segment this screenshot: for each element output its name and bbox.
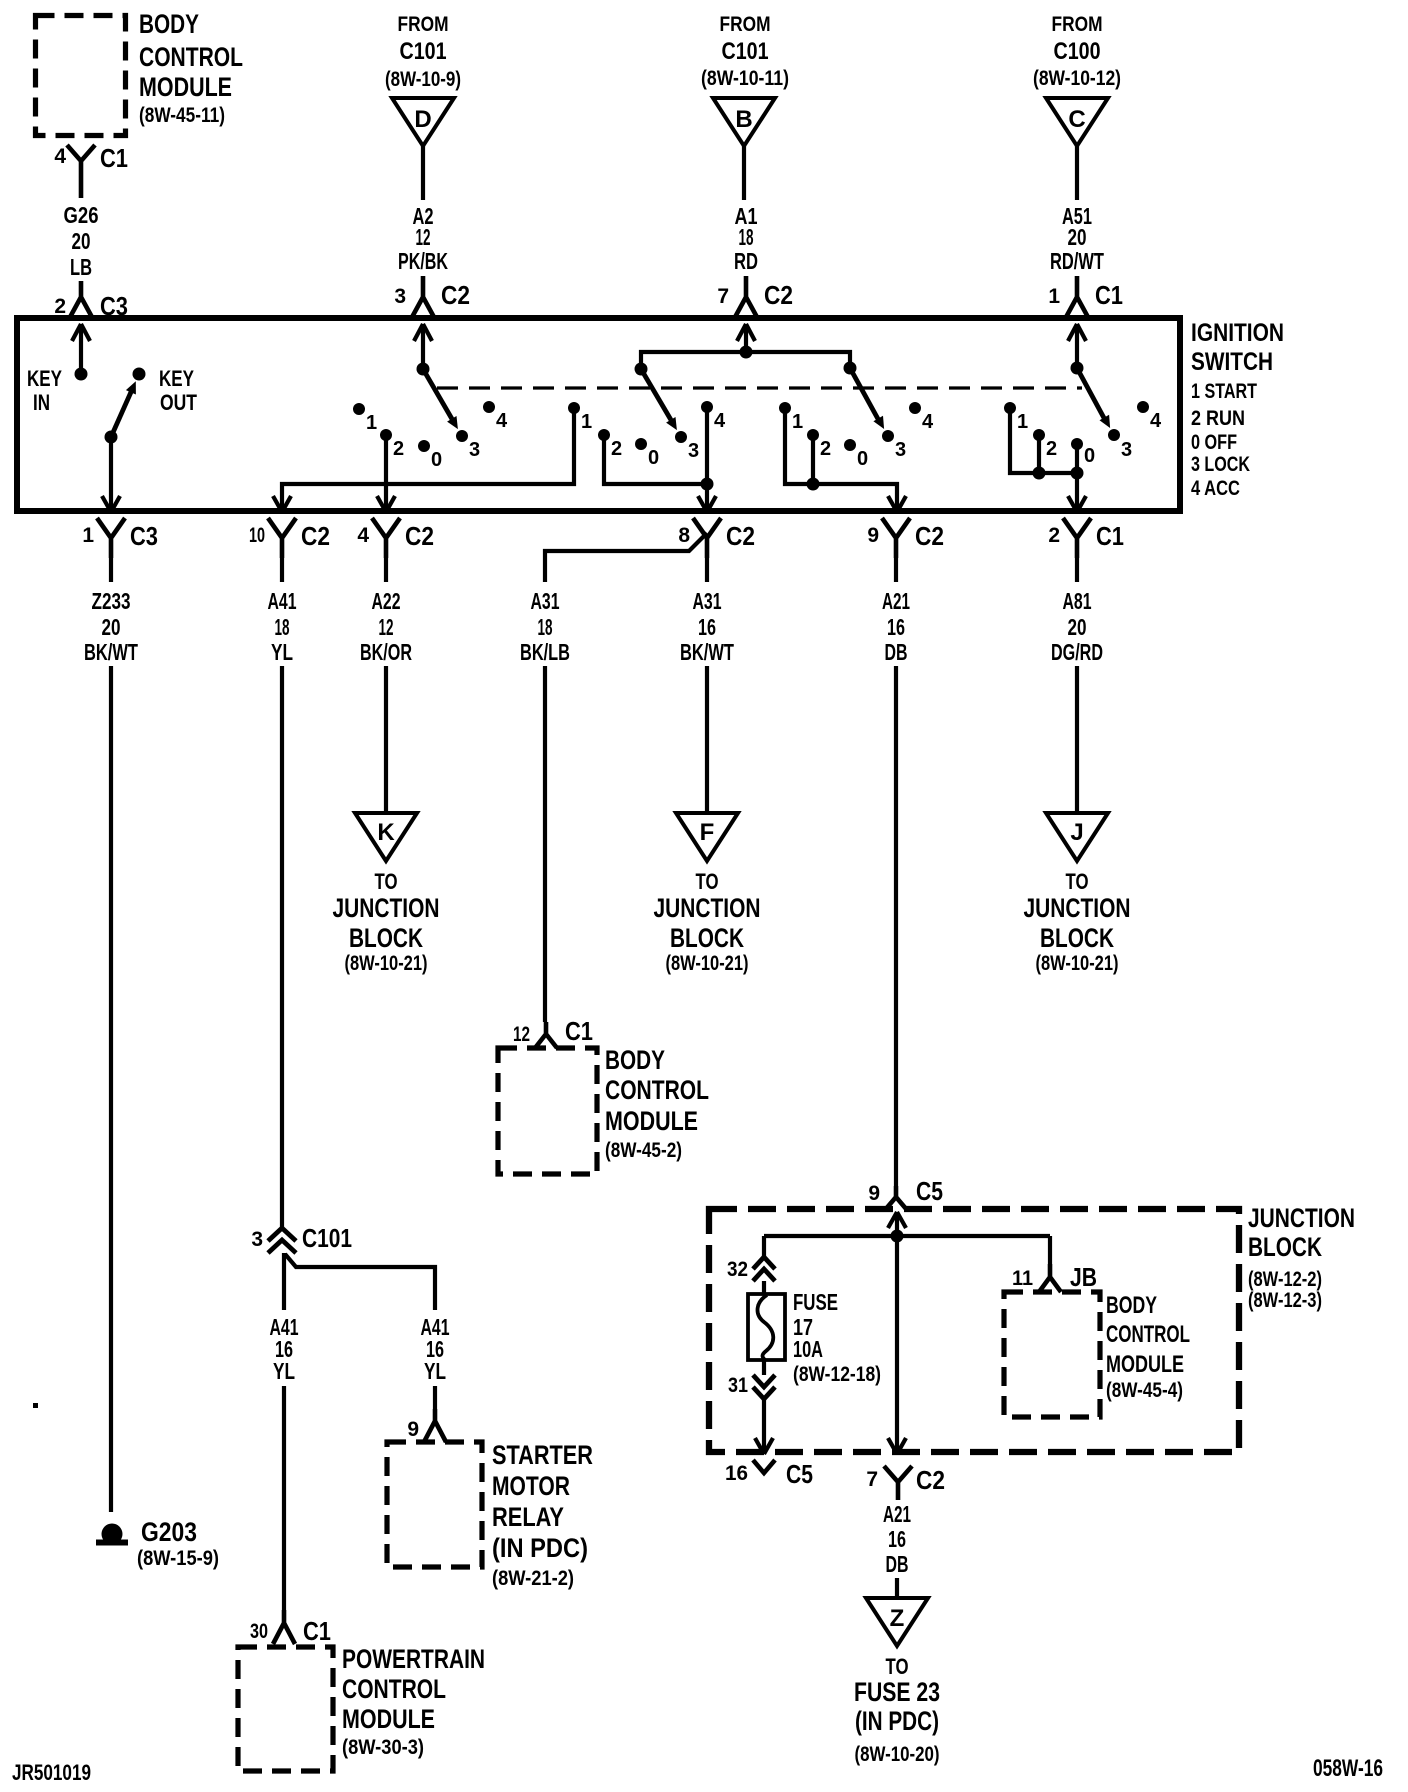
svg-text:FROM: FROM [1052,13,1103,36]
svg-text:058W-16: 058W-16 [1313,1755,1383,1782]
svg-text:(8W-30-3): (8W-30-3) [342,1736,424,1759]
wire G26 20 LB label [64,202,99,280]
wire bus to pin 7 C2 [895,1236,899,1454]
svg-text:JUNCTION: JUNCTION [1248,1203,1355,1233]
svg-text:4: 4 [714,410,726,432]
arrow out of box at pin 8 C2 [698,496,716,512]
svg-text:0 OFF: 0 OFF [1191,431,1237,454]
arrow into box at pin 7 C2 [737,324,755,341]
wire A31 18 to BCM [543,666,547,1022]
svg-text:20: 20 [102,614,121,640]
svg-text:RD: RD [734,248,758,274]
S4 contact 0 [1071,438,1095,467]
svg-text:(8W-10-21): (8W-10-21) [666,952,749,975]
svg-text:1 START: 1 START [1191,380,1257,403]
connector C1 pin 30 [250,1610,331,1646]
svg-text:12: 12 [416,224,431,250]
svg-text:BK/OR: BK/OR [360,639,412,665]
KEY OUT contact dot [133,368,146,381]
wire A81 [1075,558,1079,582]
svg-text:YL: YL [271,639,293,665]
svg-text:2: 2 [393,438,404,460]
svg-text:OUT: OUT [160,390,197,415]
svg-text:Z: Z [890,1605,905,1632]
svg-text:JUNCTION: JUNCTION [654,893,761,923]
S2 contact 2 [598,429,622,460]
junction dot S4 a [1033,467,1046,480]
svg-text:KEY: KEY [27,366,62,391]
svg-text:MOTOR: MOTOR [492,1471,570,1501]
S4 contact 3 [1108,429,1132,461]
S2 contact 1 [568,402,592,433]
svg-text:FROM: FROM [398,13,449,36]
svg-text:BK/WT: BK/WT [84,639,138,665]
svg-text:BK/WT: BK/WT [680,639,734,665]
bus wire to S2 and S3 pivots [641,352,850,369]
svg-text:11: 11 [1012,1267,1033,1290]
svg-text:J: J [1070,819,1083,846]
connector C2 pin 7 lower [866,1465,945,1500]
svg-text:C1: C1 [100,143,128,173]
to junction block label F [654,869,761,975]
svg-text:1: 1 [1017,411,1028,433]
svg-text:IGNITION: IGNITION [1191,319,1284,347]
svg-text:MODULE: MODULE [605,1106,698,1136]
svg-text:D: D [414,106,431,133]
junction block bus dot [891,1230,904,1243]
junction dot S4 b [1071,467,1084,480]
wire A31 18 BK/LB label [520,588,570,665]
svg-text:STARTER: STARTER [492,1440,593,1470]
svg-text:C2: C2 [764,280,793,310]
off-page connector Z [866,1598,928,1646]
wire A22 [384,558,388,582]
svg-text:4: 4 [1150,410,1162,432]
arrow out of box at pin 1 C3 [102,496,120,512]
KEY OUT label [159,366,197,415]
svg-text:20: 20 [72,228,91,254]
svg-text:2: 2 [1046,438,1057,460]
arrow into junction block [888,1212,906,1228]
svg-text:10A: 10A [793,1336,823,1362]
S1 contact 2 [380,429,404,460]
S2 contact 3 [675,431,699,462]
S4 contact 4 [1137,401,1162,432]
FROM C101 (8W-10-9) label [385,13,461,91]
svg-text:TO: TO [886,1654,909,1679]
svg-text:32: 32 [727,1258,748,1281]
svg-text:(8W-10-12): (8W-10-12) [1033,67,1121,90]
wire S4 contact 2 down [1037,440,1041,473]
body control module (8W-45-11) label [139,9,243,127]
junction block bus wire [764,1236,1050,1257]
svg-text:RELAY: RELAY [492,1502,564,1532]
svg-text:4: 4 [922,411,934,433]
switch S1 pivot dot [417,363,430,376]
wire A41 [280,558,284,582]
svg-text:2: 2 [820,438,831,460]
svg-text:(8W-15-9): (8W-15-9) [137,1547,219,1570]
to junction block label K [333,869,440,975]
svg-text:DB: DB [885,639,908,665]
arrow out of box at pin 9 C2 [888,496,906,512]
svg-text:BODY: BODY [1106,1292,1157,1319]
svg-text:4: 4 [496,410,508,432]
svg-text:YL: YL [424,1358,446,1384]
wire Z233 [109,558,113,582]
svg-text:2 RUN: 2 RUN [1191,407,1245,430]
svg-text:(8W-45-11): (8W-45-11) [139,104,225,127]
FROM C100 (8W-10-12) label [1033,13,1121,90]
connector C1 pin 12 [513,1016,593,1048]
ground G203 symbol [96,1524,128,1545]
svg-text:BLOCK: BLOCK [349,923,423,953]
connector C5 pin 9 [868,1176,943,1210]
svg-text:(8W-12-18): (8W-12-18) [793,1363,881,1386]
svg-text:4 ACC: 4 ACC [1191,477,1240,500]
svg-text:YL: YL [273,1358,295,1384]
svg-text:MODULE: MODULE [1106,1351,1184,1378]
svg-text:16: 16 [887,614,905,640]
svg-text:C101: C101 [400,38,447,65]
wire S4 contact 0 to pin 2 C1 [1075,449,1079,512]
wire A21 to Z [895,1578,899,1598]
connector C2 pin 8 [678,518,755,558]
svg-text:C2: C2 [301,521,330,551]
svg-text:TO: TO [696,869,719,894]
connector C5 pin 16 [725,1459,813,1489]
svg-text:0: 0 [431,449,442,471]
svg-text:RD/WT: RD/WT [1050,248,1104,274]
svg-text:TO: TO [375,869,398,894]
connector C3 pin 1 [82,518,158,558]
switch S2 pivot dot [635,363,648,376]
wire pin7 C2 to bus [744,324,748,352]
svg-text:9: 9 [407,1418,419,1441]
svg-text:16: 16 [725,1462,748,1485]
svg-text:18: 18 [538,614,553,640]
wire A31 16 BK/WT label [680,588,734,665]
wire 32 to fuse [762,1281,766,1294]
svg-text:C1: C1 [565,1016,593,1046]
ignition switch box [17,318,1180,511]
S4 contact 2 [1033,429,1057,460]
svg-text:C101: C101 [302,1223,352,1253]
svg-text:(8W-12-2): (8W-12-2) [1248,1268,1322,1291]
wire A41 18 YL label [268,588,297,665]
arrow out of box at pin 2 C1 [1068,496,1086,512]
svg-text:LB: LB [70,254,92,280]
svg-text:(8W-12-3): (8W-12-3) [1248,1289,1322,1312]
body control module (8W-45-2) label [605,1045,709,1162]
svg-text:BLOCK: BLOCK [1248,1232,1322,1262]
KEY IN label [27,366,62,415]
wire S2 contact 1 to pin 10 C2 [282,408,574,512]
S3 contact 2 [807,429,831,460]
svg-text:IN: IN [33,390,50,415]
svg-text:A41: A41 [268,588,297,614]
bus junction dot [740,346,753,359]
wire A41 left to PCM [282,1386,286,1610]
wire S3 contact 1 to pin 9 C2 [785,413,897,512]
body control module (8W-45-4) label [1106,1292,1190,1402]
svg-text:JUNCTION: JUNCTION [1024,893,1131,923]
wire pin1 C1 to switch S4 pivot [1075,324,1079,368]
svg-text:(8W-10-20): (8W-10-20) [855,1743,940,1766]
arrow out of box at pin 10 C2 [273,496,291,512]
svg-text:(8W-21-2): (8W-21-2) [492,1567,574,1590]
svg-text:3 LOCK: 3 LOCK [1191,453,1250,476]
wire A41 16 YL left segment [282,1253,286,1310]
body control module (8W-45-2) box [498,1048,597,1174]
svg-text:MODULE: MODULE [139,72,232,102]
wire S4 contact 1 to contact 0 line [1010,413,1077,473]
svg-text:CONTROL: CONTROL [342,1674,446,1704]
svg-text:K: K [377,819,395,846]
svg-text:MODULE: MODULE [342,1704,435,1734]
powertrain control module box [238,1647,333,1771]
svg-text:(IN PDC): (IN PDC) [855,1706,939,1736]
svg-text:C101: C101 [722,38,769,65]
wire A41 to C101 [280,666,284,1228]
wire A81 20 DG/RD label [1051,588,1103,665]
KEY IN contact dot [75,368,88,381]
switch S3 pivot dot [844,362,857,375]
svg-text:PK/BK: PK/BK [398,248,448,274]
wire A31 16 to F [705,666,709,813]
svg-text:BK/LB: BK/LB [520,639,570,665]
svg-text:3: 3 [469,439,480,461]
switch S3 arm [850,368,884,429]
svg-text:12: 12 [513,1023,530,1046]
switch S1 arm [423,369,458,429]
connector C2 pin 3 [394,276,470,319]
wire Z233 to ground [109,666,113,1512]
svg-text:JUNCTION: JUNCTION [333,893,440,923]
switch positions dashed line [437,386,1082,389]
svg-text:16: 16 [888,1526,906,1552]
fuse 17 10A label [793,1289,881,1386]
svg-text:C5: C5 [786,1459,813,1489]
wire pin2 C3 to KEY IN contact [79,324,83,374]
svg-text:A21: A21 [882,588,910,614]
off-page connector K [355,813,417,861]
svg-text:0: 0 [857,448,868,470]
svg-text:(8W-45-2): (8W-45-2) [605,1139,682,1162]
connector C2 pin 4 [357,518,434,558]
svg-text:8: 8 [678,524,690,547]
svg-text:C: C [1068,106,1085,133]
fuse 17 [748,1294,785,1360]
wire bus to JB connector [1048,1236,1052,1264]
svg-text:20: 20 [1068,614,1087,640]
svg-text:4: 4 [357,524,369,547]
svg-text:(8W-10-9): (8W-10-9) [385,68,461,91]
S4 contact 1 [1004,402,1028,433]
svg-text:1: 1 [792,411,803,433]
svg-text:BODY: BODY [605,1045,665,1075]
svg-text:(IN PDC): (IN PDC) [492,1533,588,1563]
wire from B [742,146,746,200]
svg-text:CONTROL: CONTROL [1106,1321,1190,1348]
switch S4 pivot dot [1071,362,1084,375]
svg-text:3: 3 [251,1228,263,1251]
svg-text:CONTROL: CONTROL [605,1075,709,1105]
svg-text:A81: A81 [1063,588,1092,614]
wire into junction block [895,1212,899,1236]
svg-text:A31: A31 [693,588,722,614]
svg-text:FROM: FROM [720,13,771,36]
arrow into box at pin 3 C2 [414,324,432,341]
switch S4 arm [1077,368,1110,428]
svg-text:G26: G26 [64,202,99,228]
svg-text:2: 2 [54,295,66,318]
wire fuse to 31 [762,1360,766,1375]
S3 contact 3 [882,430,906,461]
svg-text:7: 7 [717,285,729,308]
svg-text:18: 18 [739,224,754,250]
svg-text:C3: C3 [130,521,158,551]
ground G203 label [137,1517,219,1570]
powertrain control module label [342,1644,485,1759]
wire pin3 C2 to switch S1 pivot [421,324,425,369]
junction block box [709,1209,1239,1452]
svg-text:9: 9 [867,524,879,547]
svg-text:BLOCK: BLOCK [670,923,744,953]
junction block label [1248,1203,1355,1312]
svg-text:(8W-45-4): (8W-45-4) [1106,1379,1183,1402]
arrow out at pin 16 C5 [755,1438,773,1454]
svg-text:A21: A21 [883,1501,911,1527]
wire A22 to K [384,666,388,813]
key switch arm [105,381,136,443]
svg-text:3: 3 [1121,439,1132,461]
FROM C101 (8W-10-11) label [701,13,789,90]
svg-text:3: 3 [688,440,699,462]
connector C3 pin 2 [54,281,128,321]
svg-text:2: 2 [611,438,622,460]
off-page connector D [392,98,454,146]
svg-text:C1: C1 [1095,280,1123,310]
off-page connector C [1046,98,1108,146]
connector C2 pin 9 [867,518,944,558]
svg-text:18: 18 [275,614,290,640]
wire from D [421,146,425,200]
wire A31 16 [705,558,709,582]
switch S2 arm [641,369,677,430]
svg-text:A31: A31 [531,588,560,614]
svg-text:C5: C5 [916,1176,943,1206]
to junction block label J [1024,869,1131,975]
svg-text:A22: A22 [372,588,401,614]
svg-text:C2: C2 [916,1465,945,1495]
arrow out at pin 7 C2 [888,1438,906,1454]
svg-text:SWITCH: SWITCH [1191,348,1273,376]
svg-text:9: 9 [868,1182,880,1205]
svg-text:31: 31 [728,1374,748,1397]
S3 contact 1 [779,402,803,433]
svg-text:FUSE: FUSE [793,1289,838,1315]
wire 31 to pin 16 C5 [762,1399,766,1454]
wire A31 18 jog from pin 8 [545,533,707,582]
wire A41 16 YL label right [421,1314,450,1384]
stray mark [33,1403,38,1408]
svg-text:DG/RD: DG/RD [1051,639,1103,665]
wire A41 right to relay [433,1386,437,1409]
off-page connector J [1046,813,1108,861]
svg-text:1: 1 [1048,285,1060,308]
arrow out of box at pin 4 C2 [377,496,395,512]
junction dot S2 [701,478,714,491]
wire A2 12 PK/BK label [398,203,448,274]
S3 contact 4 [909,402,934,433]
svg-text:JR501019: JR501019 [12,1760,91,1785]
svg-text:POWERTRAIN: POWERTRAIN [342,1644,485,1674]
svg-text:16: 16 [698,614,716,640]
svg-text:20: 20 [1068,224,1087,250]
svg-text:C1: C1 [1096,521,1124,551]
svg-text:(8W-10-21): (8W-10-21) [1036,952,1119,975]
wire S2 contact 4 to pin 8 C2 [705,412,709,512]
svg-text:C1: C1 [303,1616,331,1646]
to fuse 23 label [854,1654,940,1766]
svg-text:30: 30 [250,1620,268,1643]
S2 contact 0 [635,438,659,469]
junction dot S3 [807,478,820,491]
svg-text:0: 0 [648,447,659,469]
svg-text:TO: TO [1066,869,1089,894]
S1 contact 3 [456,430,480,461]
svg-text:BODY: BODY [139,9,199,39]
connector C2 pin 7 [717,276,793,319]
svg-text:B: B [735,106,752,133]
starter motor relay label [492,1440,593,1590]
connector C1 pin 4 [54,143,128,198]
svg-text:C2: C2 [915,521,944,551]
connector C1 pin 2 [1048,518,1124,558]
wire S3 contact 2 to junction [811,440,815,484]
S1 contact 4 [483,401,508,432]
svg-text:7: 7 [866,1468,878,1491]
svg-text:2: 2 [1048,524,1060,547]
svg-text:4: 4 [54,145,66,168]
svg-text:F: F [700,819,715,846]
svg-text:3: 3 [895,439,906,461]
arrow into box at pin 2 C3 [72,324,90,341]
wire from C [1075,146,1079,200]
svg-text:G203: G203 [141,1517,197,1547]
wire A41 16 YL label left [270,1314,299,1384]
svg-text:(8W-10-11): (8W-10-11) [701,67,789,90]
svg-text:1: 1 [82,524,94,547]
svg-text:3: 3 [394,285,406,308]
wire S2 contact 2 to junction [604,440,707,484]
S3 contact 0 [844,439,868,470]
wire Z233 20 BK/WT label [84,588,138,665]
svg-text:C100: C100 [1054,38,1101,65]
svg-text:C2: C2 [405,521,434,551]
svg-text:BLOCK: BLOCK [1040,923,1114,953]
svg-text:C2: C2 [441,280,470,310]
wire A81 to J [1075,666,1079,813]
wire key switch to pin 1 C3 [109,437,113,512]
wire A21 16 DB label [882,588,910,665]
wire A1 18 RD label [734,203,758,274]
svg-text:0: 0 [1084,445,1095,467]
S2 contact 4 [701,401,726,432]
connector JB pin 11 [1012,1262,1097,1292]
svg-text:1: 1 [581,411,592,433]
